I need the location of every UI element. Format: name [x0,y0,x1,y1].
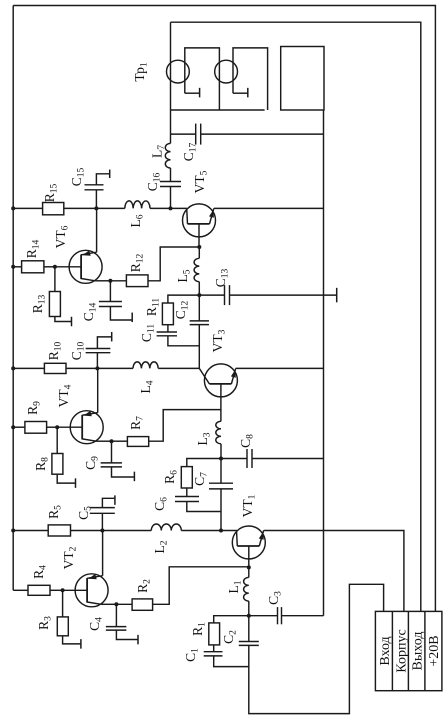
capacitor C9 link down [111,441,113,463]
transistor VT1 [232,526,265,559]
resistor R3 chassis link [63,636,81,644]
capacitor C14 link down [109,281,111,302]
capacitor C4 link down [115,604,117,626]
transistor VT1 label [240,494,258,517]
transformer Tp1 winding core circle 1 [167,60,190,83]
transistor VT5 label [192,170,210,193]
terminal block frame [375,611,442,690]
resistor R15 label [42,183,60,202]
wire L4 to VT3 collector [158,367,199,369]
resistor R8 label [33,457,51,471]
capacitor C15 [85,185,104,190]
capacitor C17 [196,124,201,145]
transformer Tp1 winding cell 1 [185,48,220,110]
wire VT6 collector to node [95,280,110,282]
resistor R8 link [56,427,58,453]
wire VT5 base node to L5 [198,247,200,258]
wire VT5 emitter to ground rail [214,207,324,209]
resistor R10 [44,363,66,373]
resistor R2 label [135,579,153,593]
resistor R3 [57,617,68,636]
wire R10 left [13,367,44,369]
capacitor C15 chassis link [96,174,109,185]
transistor VT5 [183,204,216,237]
wire R10 to node [66,367,97,369]
transistor VT2 label [61,546,79,569]
wire R9 to base node [47,426,58,428]
capacitor C3 label [266,591,284,605]
resistor R13 chassis link [55,317,71,322]
capacitor C10 link down [96,353,98,369]
wire +20V rail (left vertical, landscape top rail) [12,6,14,591]
capacitor C4 [106,627,127,631]
wire VT1 emitter to chassis terminal [264,531,404,612]
wire R5 left [13,530,48,532]
resistor R1 label [190,622,208,636]
capacitor C14 label [81,302,99,321]
wire +20V outer loop to +20V terminal [13,6,435,612]
terminal divider 2 [407,611,409,690]
wire R15 to node [64,207,97,209]
wire R6 to C6 [186,488,188,497]
capacitor C15 label [69,167,87,186]
capacitor C8 label [238,434,256,448]
wire R2 to VT1 base node [153,567,249,605]
capacitor C14 [99,302,122,307]
wire VT5 base down [198,224,200,247]
wire R7 left [112,440,128,442]
chassis bar at C10 [111,332,113,342]
transformer Tp1 cell 1 end bar [199,88,201,98]
terminal label output [411,632,426,671]
node R5/C5/L2 junction [100,529,104,533]
node R10/C10/L4 junction [95,366,99,370]
resistor R11 label [144,298,162,316]
resistor R8 [52,454,63,475]
capacitor C6 [175,497,199,502]
node +20V/R10 junction [11,366,15,370]
wire C3 to ground rail [282,615,324,617]
transistor VT6 label [53,225,71,248]
wire node to L2 [102,530,151,532]
wire ground rail [323,110,325,616]
capacitor C12 link [198,295,200,321]
inductor L2 [151,524,181,531]
inductor L5 [194,258,199,281]
terminal divider 1 [391,611,393,690]
wire node to L6 [96,207,124,209]
wire VT4 collector to node [96,440,111,442]
resistor R13 label [30,294,48,313]
terminal label chassis [394,629,409,672]
svg-text:+20В: +20В [427,635,442,666]
wire R12 left [110,280,126,282]
inductor L2 label [152,540,170,553]
resistor R4 [28,585,50,595]
node VT4 collector/R7/C9 junction [110,439,114,443]
capacitor C7 [209,483,233,489]
transistor VT3 collector entry [199,368,209,384]
wire R2 left [116,603,132,605]
transformer Tp1 secondary box [281,47,324,111]
resistor R12 [126,275,148,287]
resistor R6 label [162,470,180,484]
wire VT6 emitter up to R15 node [96,208,98,252]
node R4/R3/VT2 base junction [61,588,65,592]
wire R1 top link [214,616,249,623]
transformer Tp1 winding core circle 2 [215,60,238,83]
wire R14 left [13,266,21,268]
chassis bar at C4 [137,635,139,645]
capacitor C11 label [139,324,157,342]
wire R1 to C1 [213,645,215,652]
capacitor C17 label [181,142,199,161]
capacitor C5 label [76,506,94,520]
capacitor C7 label [192,472,210,486]
capacitor C12 [190,321,209,325]
wire base node to VT6 [55,266,81,268]
resistor R3 link [62,590,64,617]
wire L5 to node [198,282,200,295]
capacitor C13 link left [199,294,224,296]
resistor R6 [181,467,192,488]
resistor R9 label [25,401,43,415]
capacitor C16 [160,182,181,187]
wire L2 to VT1 collector [181,530,237,532]
wire R5 to node [71,530,103,532]
wire VT2 emitter up to R5 node [102,531,104,576]
wire C12 to VT3 collector [198,325,200,369]
wire VT3 base down [220,384,222,421]
wire base node to VT4 [57,426,82,428]
inductor L3 [216,421,221,444]
transistor VT2 [75,574,108,607]
inductor L6 [125,201,150,209]
svg-text:Вход: Вход [378,636,393,665]
resistor R10 label [46,341,64,360]
node VT1 base/R2 junction [247,565,251,569]
transformer Tp1 winding cell 2 [233,48,268,110]
inductor L7 label [150,145,168,158]
resistor R12 label [128,253,146,272]
capacitor C3 [278,607,282,624]
resistor R5 label [46,505,64,519]
node L3/C7/C8 junction [219,457,223,461]
svg-text:Корпус: Корпус [394,629,409,672]
wire L7 to C16 [170,168,172,182]
capacitor C3 link left [249,615,278,617]
chassis bar at C14 [131,313,133,323]
wire base node to VT2 [63,589,88,591]
wire L6 to VT5 [150,207,187,209]
inductor L7 [165,143,170,168]
wire node to L4 [97,367,133,369]
resistor R8 chassis link [57,474,75,483]
resistor R5 [48,525,70,536]
node R9/R8/VT4 base junction [55,425,59,429]
node L1/R1/C2/C3 junction [247,614,251,618]
chassis bar at C5 [114,495,116,505]
wire VT4 emitter up to R10 node [97,368,99,412]
wire L3 to node [220,444,222,459]
capacitor C15 link down [95,190,97,209]
capacitor C13 chassis wire [230,294,337,296]
inductor L6 label [128,214,146,227]
capacitor C8 [247,449,252,468]
transistor VT6 [69,250,102,283]
capacitor C2 [239,642,259,646]
transformer Tp1 bottom edge [171,109,265,111]
capacitor C11 [157,332,177,336]
wire R11 to C11 [167,325,169,332]
wire output loop to output terminal [171,22,421,612]
resistor R11 [162,303,173,325]
resistor R9 [25,422,47,434]
wire R9 left [13,426,25,428]
terminal label input [378,636,393,665]
transistor VT4 label [56,384,74,407]
resistor R7 [127,437,148,447]
wire transformer to L7 [170,110,172,143]
wire C1 return [214,656,249,667]
capacitor C9 label [83,456,101,470]
resistor R15 [43,203,64,215]
wire C2 to input loop [249,584,384,713]
capacitor C1 [204,652,223,656]
wire C11 return [168,336,199,346]
wire C16 to VT5 collector rail [170,187,172,209]
chassis bar at C13 [336,288,338,303]
capacitor C12 label [173,300,191,319]
terminal label +20V [427,635,442,666]
inductor L4 [133,362,158,369]
wire VT2 collector to node [101,603,116,605]
node VT6 collector/R12/C14 junction [108,279,112,283]
resistor R4 label [31,565,49,579]
capacitor C8 link left [221,458,247,460]
capacitor C5 [90,508,115,514]
node C7/L2/VT1 junction [219,529,223,533]
node R14/R13/VT6 base junction [53,265,57,269]
node VT2 collector/R2/C4 junction [114,602,118,606]
capacitor C10 label [69,341,87,360]
chassis bar at R8 [75,478,77,488]
capacitor C10 chassis link [97,337,111,349]
terminal divider 3 [424,611,426,690]
wire VT1 base down [248,546,250,577]
wire R12 to VT5 base node [148,247,199,281]
transformer Tp1 primary feed wire [170,22,172,110]
wire R6 top link [187,459,221,467]
resistor R14 [22,261,44,273]
node +20V/R5 junction [11,529,15,533]
wire C17 link [171,133,324,135]
capacitor C9 [101,463,122,467]
resistor R3 label [36,616,54,630]
node C16-collector junction [169,206,173,210]
capacitor C9 chassis link [112,467,134,477]
inductor L4 label [138,380,156,393]
inductor L1 [244,577,249,601]
transistor VT4 [70,411,103,444]
chassis bar at C9 [133,472,135,482]
node +20V/R15 junction [11,206,15,210]
capacitor C5 chassis link [102,498,114,507]
chassis bar at R13 [71,317,73,327]
wire R15 left [13,207,42,209]
node R15/C15/L6 junction [94,206,98,210]
resistor R13 [49,292,60,317]
resistor R14 label [24,239,42,258]
capacitor C2 link [248,616,250,642]
inductor L1 label [226,580,244,593]
chassis bar at C15 [109,170,111,179]
capacitor C14 chassis link [110,307,131,321]
wire C7 to VT1 collector wire [220,489,222,531]
transistor VT3 [204,364,237,397]
node L5/C12/C13 junction [197,293,201,297]
wire VT3 emitter to ground rail [236,367,324,369]
resistor R13 link [54,267,56,292]
inductor L3 label [195,432,213,445]
wire +20V to R4 [13,589,28,591]
capacitor C5 link down [101,513,103,530]
transformer Tp1 label [132,62,150,81]
node VT5 base/R12 junction [197,245,201,249]
transformer Tp1 cell 2 end bar [247,88,249,98]
node +20V/R14 junction [11,265,15,269]
capacitor C2 label [221,630,239,644]
wire R4 to base node [50,589,63,591]
capacitor C7 link [220,459,222,484]
wire L1 to node [248,601,250,616]
wire R11 top link [168,295,199,303]
capacitor C13 [225,285,230,305]
inductor L5 label [175,269,193,282]
capacitor C1 label [183,648,201,662]
capacitor C4 chassis link [116,630,137,639]
resistor R1 [209,623,220,645]
wire C8 to ground rail [252,458,324,460]
wire C6 return [187,502,221,512]
capacitor C13 label [213,268,231,287]
resistor R2 [132,599,153,610]
wire R14 to base node [44,266,55,268]
wire R7 to VT3 base node [149,410,221,442]
capacitor C16 label [145,172,163,191]
node +20V/R9 junction [11,425,15,429]
resistor R7 label [128,416,146,430]
transistor VT3 label [210,329,228,352]
capacitor C6 label [152,497,170,511]
capacitor C4 label [87,617,105,631]
capacitor C10 [86,349,111,353]
svg-text:Выход: Выход [411,632,426,671]
chassis bar at R3 [80,639,82,649]
